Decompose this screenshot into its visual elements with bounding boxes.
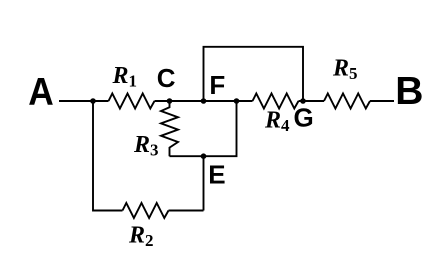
svg-text:G: G [294, 102, 314, 132]
svg-text:A: A [28, 71, 54, 114]
svg-text:B: B [395, 70, 423, 113]
node junction right of F [234, 98, 240, 104]
wire node E down to bottom loop [203, 156, 205, 210]
node F [201, 98, 207, 104]
node G [300, 98, 306, 104]
svg-text:E: E [208, 159, 225, 189]
resistor R1 [109, 94, 155, 109]
wire left junction down to R2 [93, 101, 123, 211]
svg-text:C: C [157, 63, 176, 93]
wire R2 to node E riser [169, 210, 204, 212]
resistor R4 [253, 94, 299, 109]
wire R1 to R4 (through nodes C and F) [155, 100, 253, 102]
wire R5 to B [370, 100, 394, 102]
wire top loop F to G [204, 47, 304, 101]
wire A to R1 [59, 100, 109, 102]
node C [167, 98, 173, 104]
wire R4 to R5 (through node G) [299, 100, 325, 102]
resistor R2 [123, 203, 169, 218]
resistor R3 [161, 101, 178, 156]
node E [201, 153, 207, 159]
node junction left [90, 98, 96, 104]
resistor R5 [324, 94, 370, 109]
svg-text:F: F [209, 70, 225, 100]
wire R3 bottom to riser (through node E) [170, 101, 237, 156]
